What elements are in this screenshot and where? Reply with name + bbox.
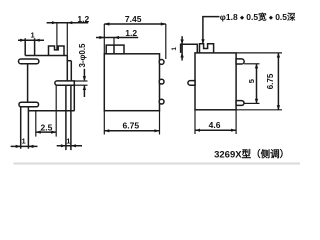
svg-text:7.45: 7.45 — [125, 14, 142, 24]
dimension 2.5 line — [36, 131, 56, 133]
arrowhead dim 5 up — [255, 64, 258, 69]
pin 2 wire right edge — [27, 107, 29, 149]
svg-text:1: 1 — [66, 136, 70, 145]
pin 3 wire right edge — [70, 85, 72, 150]
arrowhead dim 6.75 side up — [277, 53, 280, 58]
svg-text:1.2: 1.2 — [125, 28, 137, 38]
pin 3 right edge down to body bottom — [73, 85, 75, 111]
pin 3 vertical strip outer edge — [70, 61, 72, 81]
extension line 5 bottom side view — [244, 102, 259, 104]
extension line 2.5 left — [35, 111, 37, 137]
left pivot tab side view — [188, 81, 195, 86]
arrowhead dim 6.75 front left — [104, 129, 109, 132]
screw slot notch side view — [200, 44, 214, 53]
arrowhead dim 1 bottom-left b — [28, 145, 33, 148]
svg-text:1: 1 — [31, 31, 35, 40]
dimension 1.2 line front view — [96, 37, 138, 39]
dimension 1 line side view — [181, 36, 183, 60]
terminal bump 1 front view — [159, 60, 164, 65]
arrowhead dim 1.2 left view left — [52, 21, 57, 24]
pin 1 terminal stadium left view — [19, 59, 39, 64]
extension line 6.75 bottom side view — [236, 109, 282, 111]
svg-text:5: 5 — [247, 79, 256, 83]
pin 1 wire left view — [27, 64, 29, 103]
extension line 6.75 right front view — [159, 111, 161, 135]
pin 3 terminal stadium left view — [55, 81, 74, 85]
svg-text:φ1.8 ◆ 0.5宽 ◆ 0.5深: φ1.8 ◆ 0.5宽 ◆ 0.5深 — [220, 12, 296, 22]
extension line 2.5 right — [55, 85, 57, 136]
extension line 4.6 right side view — [235, 110, 237, 134]
screw slot notch left view — [49, 46, 65, 56]
body right edge left view — [66, 56, 68, 81]
pin 3 vertical step horizontal — [67, 60, 71, 62]
svg-text:1: 1 — [22, 137, 26, 146]
arrowhead dim 1.2 front left — [99, 36, 104, 39]
wire: left view top pin tab right edge — [34, 38, 36, 55]
dimension 1 bottom-left line — [11, 145, 38, 147]
dimension 1.2 line left view — [47, 22, 89, 24]
arrowhead dim 4.6 right — [231, 129, 236, 132]
svg-text:1.2: 1.2 — [77, 14, 89, 24]
terminal bump 2 front view — [159, 79, 164, 84]
dimension 7.45 line — [104, 23, 166, 25]
extension line pin thickness bottom — [74, 84, 87, 86]
body outline front view — [104, 54, 159, 111]
arrowhead dim 7.45 right — [161, 22, 166, 25]
arrowhead dim 1 side view up — [180, 53, 183, 58]
svg-text:2.5: 2.5 — [40, 122, 52, 132]
terminal bump 3 front view — [159, 99, 164, 104]
dimension 5 line side view — [256, 64, 258, 104]
arrowhead 3-phi0.5 down — [83, 76, 86, 81]
extension line pin thickness top — [74, 80, 87, 82]
svg-text:1: 1 — [171, 47, 178, 51]
top-left ledge side view — [181, 44, 198, 53]
arrowhead dim 1.2 front right — [114, 36, 119, 39]
right bottom terminal tab side view — [236, 101, 244, 106]
divider gray rule bottom — [14, 162, 301, 164]
svg-text:4.6: 4.6 — [209, 120, 221, 130]
pin 3 wire left edge — [65, 85, 67, 150]
extension line 4.6 left side view — [194, 110, 196, 134]
wire: left view top pin tab left edge — [24, 38, 26, 55]
leader line 3-phi0.5 upper — [83, 69, 85, 81]
arrowhead dim 6.75 front right — [155, 129, 160, 132]
extension line 7.45 left (body left edge up) — [103, 24, 105, 54]
arrowhead dim 1 top right — [35, 39, 40, 42]
dimension 6.75 line front view — [104, 130, 159, 132]
body outline side view — [195, 53, 236, 110]
arrowhead 3-phi0.5 up — [83, 85, 86, 90]
arrowhead dim 1 bottom-right b — [71, 144, 76, 147]
pin 2 wire left edge — [20, 107, 22, 149]
body bottom edge left view — [28, 110, 74, 112]
tab divider front view — [113, 45, 115, 54]
arrowhead dim 6.75 side down — [277, 105, 280, 110]
body top edge left view — [25, 55, 67, 57]
extension line body right edge up left view — [66, 23, 68, 56]
extension line 1.2 front view — [113, 38, 115, 46]
arrowhead dim 1 bottom-right a — [61, 144, 66, 147]
right top terminal tab side view — [236, 59, 244, 64]
top-left tab front view — [106, 45, 124, 54]
svg-text:6.75: 6.75 — [123, 121, 140, 131]
dimension 4.6 line side view — [195, 129, 236, 131]
svg-text:3-φ0.5: 3-φ0.5 — [78, 43, 87, 68]
leader line phi1.8 annotation — [203, 17, 220, 44]
arrowhead dim 7.45 left — [104, 22, 109, 25]
svg-text:6.75: 6.75 — [266, 73, 275, 89]
dimension 1 (top pin width, left view) line — [18, 39, 44, 41]
arrowhead dim 4.6 left — [195, 129, 200, 132]
arrowhead dim 1.2 left view right — [67, 21, 72, 24]
arrowhead dim 1 side view down — [180, 40, 183, 45]
extension line 7.45 right — [165, 24, 167, 59]
arrowhead dim 2.5 right — [51, 131, 56, 134]
dimension 1 bottom-right line — [57, 145, 82, 147]
svg-text:3269X型（侧调）: 3269X型（侧调） — [214, 149, 289, 161]
pin 2 terminal stadium left view — [19, 102, 39, 107]
arrowhead dim 1 top left — [20, 39, 25, 42]
arrowhead phi1.8 leader down — [201, 39, 204, 44]
arrowhead dim 2.5 left — [36, 131, 41, 134]
dimension 6.75 line side view — [277, 53, 279, 110]
leader line 3-phi0.5 lower — [83, 86, 85, 97]
extension line 5 top side view — [244, 63, 259, 65]
extension line 6.75 left front view — [103, 111, 105, 135]
arrowhead dim 5 down — [255, 99, 258, 104]
extension line slot center left view — [56, 23, 58, 50]
extension line 6.75 top side view — [236, 52, 282, 54]
arrowhead dim 1 bottom-left a — [16, 145, 21, 148]
